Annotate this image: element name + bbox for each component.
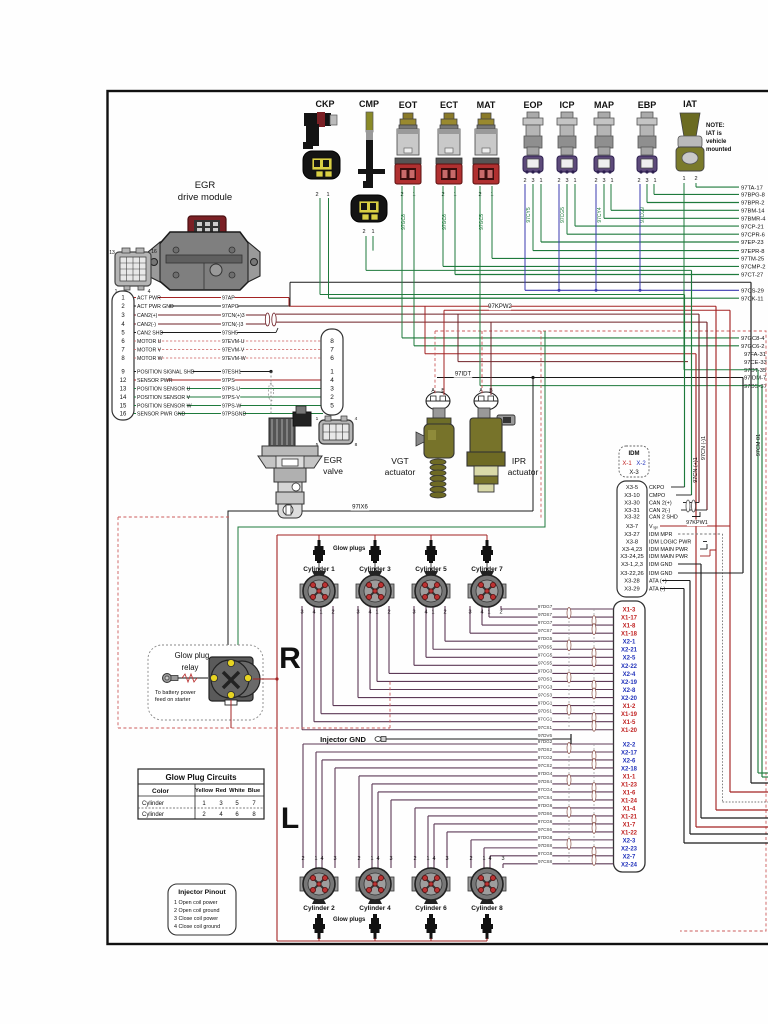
svg-text:X1-21: X1-21 <box>621 814 638 820</box>
svg-text:97CP-21: 97CP-21 <box>741 224 764 230</box>
svg-text:EOP: EOP <box>523 100 542 110</box>
svg-text:97DS3: 97DS3 <box>538 676 552 681</box>
svg-text:2 Open coil ground: 2 Open coil ground <box>174 908 220 914</box>
svg-text:3: 3 <box>531 178 534 184</box>
svg-text:actuator: actuator <box>508 467 539 477</box>
svg-text:97CG9: 97CG9 <box>640 207 646 223</box>
svg-text:3: 3 <box>468 610 471 616</box>
svg-text:97CS3: 97CS3 <box>538 693 552 698</box>
svg-text:vehicle: vehicle <box>706 139 727 145</box>
svg-text:3: 3 <box>412 610 415 616</box>
svg-text:1: 1 <box>371 229 374 235</box>
svg-text:mounted: mounted <box>706 147 732 153</box>
svg-text:R: R <box>279 642 301 675</box>
svg-text:1: 1 <box>482 856 485 862</box>
svg-text:97CS8: 97CS8 <box>538 859 552 864</box>
svg-text:Glow plugs: Glow plugs <box>333 917 366 923</box>
svg-text:X-1: X-1 <box>622 461 632 467</box>
svg-text:2: 2 <box>443 610 446 616</box>
svg-text:97DS-37: 97DS-37 <box>744 384 767 390</box>
svg-text:Cylinder 8: Cylinder 8 <box>471 905 503 912</box>
svg-text:97IDT: 97IDT <box>455 372 472 378</box>
svg-text:97CN(-)3: 97CN(-)3 <box>222 322 243 328</box>
svg-text:1: 1 <box>330 369 334 376</box>
svg-text:2: 2 <box>331 610 334 616</box>
svg-text:97PS-W: 97PS-W <box>222 404 241 410</box>
svg-text:97CY5: 97CY5 <box>526 207 532 223</box>
svg-text:POSITION SENSOR V: POSITION SENSOR V <box>137 395 191 401</box>
svg-text:97CS5: 97CS5 <box>538 660 552 665</box>
svg-text:X3-22,26: X3-22,26 <box>620 571 644 577</box>
svg-text:CMP: CMP <box>359 99 379 109</box>
svg-text:X3-28: X3-28 <box>624 579 639 585</box>
svg-text:97CK-11: 97CK-11 <box>741 296 763 302</box>
svg-text:4: 4 <box>488 856 491 862</box>
svg-text:97EVM-V: 97EVM-V <box>222 348 245 354</box>
svg-text:97EP-23: 97EP-23 <box>741 240 764 246</box>
svg-text:97TA-17: 97TA-17 <box>741 185 763 191</box>
svg-text:2: 2 <box>694 176 697 182</box>
svg-text:CKP: CKP <box>315 99 334 109</box>
svg-text:actuator: actuator <box>385 467 416 477</box>
svg-text:97DS4: 97DS4 <box>538 779 552 784</box>
svg-text:4: 4 <box>320 856 323 862</box>
svg-text:Cylinder: Cylinder <box>142 801 164 807</box>
svg-text:X3-24,25: X3-24,25 <box>620 554 644 560</box>
svg-text:97FA-31: 97FA-31 <box>744 352 766 358</box>
svg-text:ACT PWR: ACT PWR <box>137 296 161 302</box>
svg-text:97GC8-4: 97GC8-4 <box>741 336 765 342</box>
svg-text:97DG6: 97DG6 <box>538 803 553 808</box>
svg-text:3: 3 <box>445 856 448 862</box>
svg-text:3: 3 <box>602 178 605 184</box>
svg-text:8: 8 <box>355 442 358 448</box>
svg-text:X3-1,2,3: X3-1,2,3 <box>621 562 643 568</box>
svg-text:1: 1 <box>426 856 429 862</box>
svg-text:CAN2(-): CAN2(-) <box>137 322 156 328</box>
svg-text:4: 4 <box>368 610 371 616</box>
svg-text:4: 4 <box>312 610 315 616</box>
svg-text:97CPR-6: 97CPR-6 <box>741 232 765 238</box>
svg-text:4: 4 <box>355 416 358 422</box>
svg-text:13: 13 <box>120 387 127 393</box>
svg-text:97GC6-2: 97GC6-2 <box>741 344 765 350</box>
svg-text:X1-8: X1-8 <box>623 624 636 630</box>
svg-text:X3-7: X3-7 <box>626 524 638 530</box>
svg-text:97DT-35: 97DT-35 <box>744 368 766 374</box>
svg-text:Cylinder: Cylinder <box>142 812 164 818</box>
svg-text:IDM MAIN PWR: IDM MAIN PWR <box>649 554 688 560</box>
svg-text:97CG4: 97CG4 <box>538 787 553 792</box>
svg-text:97BMR-4: 97BMR-4 <box>741 217 766 223</box>
svg-text:1: 1 <box>370 856 373 862</box>
svg-text:97KPW1: 97KPW1 <box>686 520 708 526</box>
svg-text:2: 2 <box>330 394 334 401</box>
svg-text:X2-17: X2-17 <box>621 750 638 756</box>
svg-text:X2-8: X2-8 <box>623 688 636 694</box>
svg-text:15: 15 <box>120 404 127 410</box>
svg-text:X1-18: X1-18 <box>621 632 638 638</box>
svg-text:4: 4 <box>432 856 435 862</box>
svg-text:97EVM-W: 97EVM-W <box>222 356 246 362</box>
svg-text:IDM MAIN PWR: IDM MAIN PWR <box>649 547 688 553</box>
svg-text:4: 4 <box>480 610 483 616</box>
svg-text:X2-21: X2-21 <box>621 648 638 654</box>
svg-text:ATA (+): ATA (+) <box>649 579 667 585</box>
svg-text:X1-23: X1-23 <box>621 782 638 788</box>
svg-text:To battery power: To battery power <box>155 690 196 696</box>
svg-text:IAT: IAT <box>683 99 697 109</box>
svg-text:3: 3 <box>356 610 359 616</box>
svg-text:97CS7: 97CS7 <box>538 628 552 633</box>
svg-text:Glow Plug Circuits: Glow Plug Circuits <box>165 773 237 782</box>
svg-text:IDM MPR: IDM MPR <box>649 532 672 538</box>
svg-text:EOT: EOT <box>399 100 418 110</box>
svg-text:97DG7: 97DG7 <box>538 604 553 609</box>
svg-text:relay: relay <box>182 663 199 672</box>
svg-text:X3-4,23: X3-4,23 <box>622 547 642 553</box>
svg-text:97CG8: 97CG8 <box>538 851 553 856</box>
svg-text:Glow plugs: Glow plugs <box>333 546 366 552</box>
svg-text:X1-19: X1-19 <box>621 712 638 718</box>
svg-text:X3-5: X3-5 <box>626 485 638 491</box>
svg-text:97CS-29: 97CS-29 <box>741 289 764 295</box>
svg-text:97BPG-8: 97BPG-8 <box>741 193 765 199</box>
svg-text:X1-17: X1-17 <box>621 615 638 621</box>
svg-text:1: 1 <box>610 178 613 184</box>
svg-text:Glow plug: Glow plug <box>175 651 210 660</box>
svg-text:97CN (+)1: 97CN (+)1 <box>693 457 699 483</box>
svg-text:IAT is: IAT is <box>706 131 723 137</box>
svg-text:97DV6: 97DV6 <box>538 733 552 738</box>
svg-text:EGR: EGR <box>324 455 342 465</box>
svg-text:3: 3 <box>333 856 336 862</box>
svg-text:97DS7: 97DS7 <box>538 612 552 617</box>
svg-text:X3-32: X3-32 <box>624 515 639 521</box>
svg-text:97DG4: 97DG4 <box>538 771 553 776</box>
svg-text:2: 2 <box>637 178 640 184</box>
svg-text:97KPW2: 97KPW2 <box>488 304 512 310</box>
svg-text:2: 2 <box>301 856 304 862</box>
svg-text:1 Open coil power: 1 Open coil power <box>174 900 218 906</box>
svg-text:1: 1 <box>431 610 434 616</box>
svg-text:97ESH1: 97ESH1 <box>222 370 241 376</box>
svg-text:MOTOR U: MOTOR U <box>137 339 162 345</box>
svg-text:6: 6 <box>330 355 334 362</box>
svg-text:8: 8 <box>330 338 334 345</box>
svg-text:SENSOR PWR: SENSOR PWR <box>137 378 173 384</box>
svg-text:MAT: MAT <box>477 100 496 110</box>
svg-text:1: 1 <box>682 176 685 182</box>
svg-text:97IX6: 97IX6 <box>352 505 368 511</box>
svg-text:Injector Pinout: Injector Pinout <box>178 889 226 896</box>
svg-text:feed on starter: feed on starter <box>155 697 191 703</box>
svg-text:CAN 2(+): CAN 2(+) <box>649 501 672 507</box>
svg-text:97DS8: 97DS8 <box>538 843 552 848</box>
svg-text:Injector GND: Injector GND <box>320 735 366 744</box>
svg-text:IDM GND: IDM GND <box>649 571 672 577</box>
svg-text:97BPR-2: 97BPR-2 <box>741 201 765 207</box>
svg-text:97CMP-2: 97CMP-2 <box>741 265 765 271</box>
svg-text:2: 2 <box>523 178 526 184</box>
svg-text:13: 13 <box>109 250 115 256</box>
svg-text:1: 1 <box>653 178 656 184</box>
svg-text:97PS-V: 97PS-V <box>222 395 240 401</box>
svg-text:IDM LOGIC PWR: IDM LOGIC PWR <box>649 540 691 546</box>
svg-text:97CG3: 97CG3 <box>538 685 553 690</box>
svg-text:97APG: 97APG <box>222 304 239 310</box>
svg-text:Blue: Blue <box>248 788 261 794</box>
svg-text:X1-6: X1-6 <box>623 790 636 796</box>
svg-text:1: 1 <box>314 856 317 862</box>
svg-text:IDM: IDM <box>629 451 640 457</box>
svg-text:Yellow: Yellow <box>195 788 214 794</box>
svg-text:1: 1 <box>487 610 490 616</box>
svg-text:X1-1: X1-1 <box>623 774 636 780</box>
svg-text:Cylinder 4: Cylinder 4 <box>359 905 391 912</box>
svg-text:97CN(+)3: 97CN(+)3 <box>222 313 245 319</box>
svg-text:SENSOR PWR GND: SENSOR PWR GND <box>137 412 186 418</box>
svg-text:VGT: VGT <box>391 456 408 466</box>
svg-text:ICP: ICP <box>559 100 574 110</box>
svg-text:97CS4: 97CS4 <box>538 795 552 800</box>
svg-text:1: 1 <box>316 416 319 422</box>
svg-text:Cylinder 6: Cylinder 6 <box>415 905 447 912</box>
svg-text:4: 4 <box>376 856 379 862</box>
svg-text:4: 4 <box>424 610 427 616</box>
svg-text:16: 16 <box>120 412 127 418</box>
svg-text:X2-5: X2-5 <box>623 656 636 662</box>
svg-text:X1-4: X1-4 <box>623 806 636 812</box>
svg-text:ATA (-): ATA (-) <box>649 587 665 593</box>
svg-text:X2-23: X2-23 <box>621 846 638 852</box>
svg-text:Color: Color <box>152 788 169 795</box>
svg-text:97DS2: 97DS2 <box>538 747 552 752</box>
svg-text:IPR: IPR <box>512 456 526 466</box>
svg-text:97DG5: 97DG5 <box>538 636 553 641</box>
svg-text:ACT PWR GND: ACT PWR GND <box>137 304 174 310</box>
svg-text:X1-2: X1-2 <box>623 704 636 710</box>
svg-text:97CY4: 97CY4 <box>597 207 603 223</box>
svg-text:97CG5: 97CG5 <box>560 207 566 223</box>
svg-text:X2-3: X2-3 <box>623 838 636 844</box>
svg-text:X3-30: X3-30 <box>624 501 639 507</box>
svg-text:97CS1: 97CS1 <box>538 725 552 730</box>
svg-text:V: V <box>649 524 653 530</box>
svg-text:MOTOR W: MOTOR W <box>137 356 163 362</box>
svg-text:X2-1: X2-1 <box>623 640 636 646</box>
svg-text:2: 2 <box>362 229 365 235</box>
svg-text:ign: ign <box>654 526 659 530</box>
svg-text:1: 1 <box>573 178 576 184</box>
svg-text:97DG8: 97DG8 <box>538 835 553 840</box>
svg-text:IDM GND: IDM GND <box>649 562 672 568</box>
svg-text:4: 4 <box>148 289 151 295</box>
svg-text:4: 4 <box>330 377 334 384</box>
svg-text:CAN2(+): CAN2(+) <box>137 313 158 319</box>
svg-text:1: 1 <box>375 610 378 616</box>
svg-text:97DG3: 97DG3 <box>538 668 553 673</box>
svg-text:X3-31: X3-31 <box>624 508 639 514</box>
svg-text:97SH5: 97SH5 <box>222 331 238 337</box>
svg-text:97PS: 97PS <box>222 378 235 384</box>
svg-text:POSITION SENSOR W: POSITION SENSOR W <box>137 404 192 410</box>
svg-text:2: 2 <box>557 178 560 184</box>
svg-text:7: 7 <box>330 347 334 354</box>
svg-text:NOTE:: NOTE: <box>706 123 725 129</box>
svg-text:3: 3 <box>330 386 334 393</box>
svg-text:MAP: MAP <box>594 100 614 110</box>
svg-text:ECT: ECT <box>440 100 459 110</box>
svg-text:White: White <box>229 788 246 794</box>
svg-text:97CG6: 97CG6 <box>538 819 553 824</box>
svg-text:X1-5: X1-5 <box>623 720 636 726</box>
svg-text:X1-22: X1-22 <box>621 830 638 836</box>
svg-text:12: 12 <box>120 378 127 384</box>
svg-text:3 Close coil power: 3 Close coil power <box>174 916 218 922</box>
svg-text:1: 1 <box>326 192 329 198</box>
svg-text:X1-3: X1-3 <box>623 607 636 613</box>
svg-text:2: 2 <box>469 856 472 862</box>
svg-text:X2-20: X2-20 <box>621 696 638 702</box>
svg-text:X2-19: X2-19 <box>621 680 638 686</box>
svg-text:97CE-33: 97CE-33 <box>744 360 767 366</box>
svg-text:97CG2: 97CG2 <box>538 755 553 760</box>
svg-text:97CG1: 97CG1 <box>538 717 553 722</box>
svg-text:97DG1: 97DG1 <box>538 701 553 706</box>
svg-text:1: 1 <box>539 178 542 184</box>
svg-text:3: 3 <box>565 178 568 184</box>
svg-text:97DG2: 97DG2 <box>538 739 553 744</box>
svg-text:2: 2 <box>357 856 360 862</box>
svg-text:14: 14 <box>120 395 127 401</box>
svg-text:97TM-25: 97TM-25 <box>741 257 764 263</box>
svg-text:EGR: EGR <box>195 180 216 191</box>
svg-text:MOTOR V: MOTOR V <box>137 348 162 354</box>
svg-text:97EVM-U: 97EVM-U <box>222 339 245 345</box>
svg-text:3: 3 <box>300 610 303 616</box>
svg-text:97CS6: 97CS6 <box>538 827 552 832</box>
svg-text:4 Close coil ground: 4 Close coil ground <box>174 924 220 930</box>
svg-text:97PSGND: 97PSGND <box>222 412 246 418</box>
svg-text:X-3: X-3 <box>629 470 639 476</box>
svg-text:X-2: X-2 <box>636 461 646 467</box>
svg-text:16: 16 <box>151 249 157 255</box>
svg-text:3: 3 <box>645 178 648 184</box>
svg-text:X2-2: X2-2 <box>623 742 636 748</box>
svg-text:97CM 01: 97CM 01 <box>756 434 762 456</box>
svg-text:97CN (-)1: 97CN (-)1 <box>701 436 707 460</box>
svg-text:X2-24: X2-24 <box>621 862 638 868</box>
svg-text:97CT-27: 97CT-27 <box>741 273 763 279</box>
svg-text:POSITION SIGNAL SHD: POSITION SIGNAL SHD <box>137 370 195 376</box>
svg-text:2: 2 <box>387 610 390 616</box>
svg-text:97EPR-8: 97EPR-8 <box>741 249 765 255</box>
svg-text:97DS6: 97DS6 <box>538 811 552 816</box>
svg-text:3: 3 <box>501 856 504 862</box>
svg-text:Cylinder 2: Cylinder 2 <box>303 905 335 912</box>
svg-text:1: 1 <box>319 610 322 616</box>
svg-text:X2-18: X2-18 <box>621 766 638 772</box>
svg-text:2: 2 <box>315 192 318 198</box>
svg-text:X1-20: X1-20 <box>621 728 638 734</box>
svg-text:CAN2 SHD: CAN2 SHD <box>137 331 163 337</box>
svg-text:3: 3 <box>389 856 392 862</box>
svg-text:97CG7: 97CG7 <box>538 620 553 625</box>
svg-text:X3-8: X3-8 <box>626 540 638 546</box>
svg-text:X3-10: X3-10 <box>624 493 639 499</box>
svg-text:97CG5: 97CG5 <box>538 652 553 657</box>
svg-text:CMPO: CMPO <box>649 493 665 499</box>
svg-text:97AP: 97AP <box>222 296 235 302</box>
svg-text:L: L <box>281 802 299 835</box>
svg-text:CAN 2 SHD: CAN 2 SHD <box>649 515 678 521</box>
svg-text:X1-24: X1-24 <box>621 798 638 804</box>
svg-text:drive module: drive module <box>178 192 232 203</box>
svg-text:X2-7: X2-7 <box>623 854 636 860</box>
svg-text:2: 2 <box>594 178 597 184</box>
svg-text:97IDM-7: 97IDM-7 <box>744 376 766 382</box>
svg-text:97DS5: 97DS5 <box>538 644 552 649</box>
svg-text:CAN 2(-): CAN 2(-) <box>649 508 670 514</box>
svg-text:X3-27: X3-27 <box>624 532 639 538</box>
svg-text:X2-6: X2-6 <box>623 758 636 764</box>
svg-text:2: 2 <box>499 610 502 616</box>
svg-text:2: 2 <box>413 856 416 862</box>
svg-text:97PS-U: 97PS-U <box>222 387 240 393</box>
svg-text:5: 5 <box>330 403 334 410</box>
svg-text:CKPO: CKPO <box>649 485 664 491</box>
svg-text:X2-4: X2-4 <box>623 672 636 678</box>
svg-text:97DS1: 97DS1 <box>538 709 552 714</box>
svg-text:Red: Red <box>216 788 227 794</box>
svg-text:5: 5 <box>316 442 319 448</box>
svg-text:valve: valve <box>323 466 343 476</box>
svg-text:X3-29: X3-29 <box>624 587 639 593</box>
svg-text:X1-7: X1-7 <box>623 822 636 828</box>
svg-text:EBP: EBP <box>638 100 657 110</box>
svg-text:X2-22: X2-22 <box>621 664 638 670</box>
svg-text:POSITION SENSOR U: POSITION SENSOR U <box>137 387 191 393</box>
svg-text:97CS2: 97CS2 <box>538 763 552 768</box>
svg-text:97BM-14: 97BM-14 <box>741 209 765 215</box>
